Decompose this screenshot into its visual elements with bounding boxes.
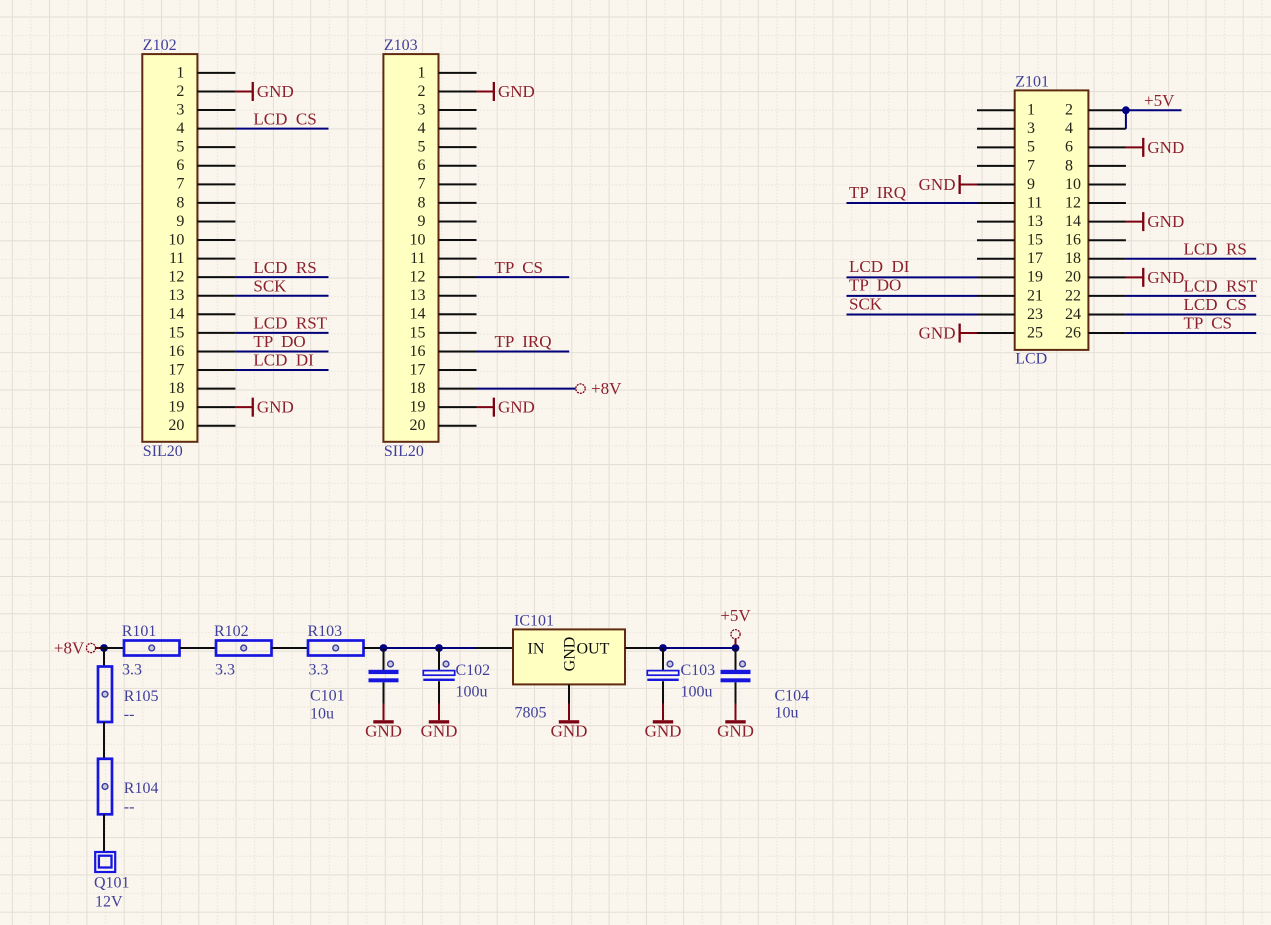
Z103 pin 10 (410, 231, 477, 248)
Z101 pin 16 (1065, 232, 1126, 249)
wire IC101 OUT stub (625, 647, 663, 649)
svg-text:11: 11 (1027, 194, 1042, 211)
svg-text:LCD RST: LCD RST (253, 314, 327, 333)
Z103 pin 17 (410, 361, 477, 378)
svg-text:GND: GND (645, 722, 682, 741)
svg-text:SIL20: SIL20 (384, 443, 424, 460)
wire C103 to ground (662, 681, 664, 704)
Z102 pin 16 (168, 343, 235, 360)
Z101 pin 5 (977, 139, 1035, 156)
Z102 pin 2 (176, 83, 235, 100)
wire C104 to ground (735, 682, 737, 704)
wire IC101 GND pin (568, 685, 570, 705)
svg-text:7: 7 (176, 176, 184, 193)
Z102 pin 17 (168, 361, 235, 378)
wire C101 tap (383, 648, 385, 671)
wire net +5V (1126, 109, 1182, 111)
svg-text:4: 4 (1065, 120, 1073, 137)
svg-text:13: 13 (410, 287, 426, 304)
svg-text:R105: R105 (124, 688, 159, 705)
resistor R104 (98, 759, 112, 815)
svg-text:6: 6 (176, 157, 184, 174)
svg-text:14: 14 (168, 306, 184, 323)
connector Z101 (LCD) body (1015, 90, 1089, 350)
Z102 pin 12 (168, 269, 235, 286)
Z103 pin 14 (410, 306, 477, 323)
svg-text:25: 25 (1027, 324, 1043, 341)
Z101 pin 22 (1065, 287, 1126, 304)
svg-text:+5V: +5V (720, 606, 751, 625)
wire net LCD_RST (235, 332, 328, 334)
Z102 pin 5 (176, 139, 235, 156)
svg-text:22: 22 (1065, 287, 1081, 304)
svg-text:7: 7 (1027, 157, 1035, 174)
Z102 pin 18 (168, 380, 235, 397)
junction node at C101 (380, 644, 388, 652)
svg-text:Q101: Q101 (94, 875, 130, 892)
Z101 pin 2 (1065, 102, 1126, 119)
wire junction to R105 (103, 648, 105, 667)
Z103 pin 18 (410, 380, 477, 397)
svg-text:7: 7 (418, 176, 426, 193)
svg-text:+5V: +5V (1144, 91, 1175, 110)
ground at Z101 pin 14 (1126, 212, 1184, 231)
Z103 pin 1 (418, 64, 477, 81)
svg-text:SCK: SCK (849, 294, 883, 313)
svg-text:SCK: SCK (253, 276, 287, 295)
ground at Z101 pin 20 (1126, 268, 1184, 287)
ground at Z101 pin 25 (919, 324, 977, 343)
svg-text:10: 10 (168, 231, 184, 248)
svg-text:LCD CS: LCD CS (1184, 295, 1247, 314)
svg-text:LCD DI: LCD DI (253, 351, 314, 370)
Z103 pin 2 (418, 83, 477, 100)
wire net LCD_RS (235, 276, 328, 278)
svg-text:1: 1 (418, 64, 426, 81)
ground at Z101 pin 9 (919, 175, 977, 194)
svg-text:TP IRQ: TP IRQ (495, 332, 552, 351)
svg-text:C103: C103 (681, 662, 716, 679)
Z102 pin 14 (168, 306, 235, 323)
svg-text:9: 9 (176, 213, 184, 230)
Z103 pin 4 (418, 120, 477, 137)
junction node at C104/+5V (732, 644, 740, 652)
wire net LCD_DI (Z101 left) (847, 276, 978, 278)
Z102 pin 13 (168, 287, 235, 304)
junction node +8V/R101/R105 (100, 644, 108, 652)
svg-text:26: 26 (1065, 324, 1081, 341)
Z101 pin 23 (977, 306, 1043, 323)
svg-text:17: 17 (1027, 250, 1043, 267)
wire C102 tap (438, 648, 440, 671)
svg-text:3.3: 3.3 (309, 662, 329, 679)
svg-text:17: 17 (168, 361, 184, 378)
power port +8V (54, 638, 100, 657)
svg-text:Z102: Z102 (143, 37, 177, 54)
wire net TP_IRQ (Z101 left) (847, 202, 978, 204)
Z103 pin 9 (418, 213, 477, 230)
Z101 pin 18 (1065, 250, 1126, 267)
svg-text:Z101: Z101 (1015, 74, 1049, 91)
Z103 pin 8 (418, 194, 477, 211)
wire R105 to R104 (103, 722, 105, 759)
wire net (R103 to IC101 IN) (380, 647, 476, 649)
Z103 pin 3 (418, 101, 477, 118)
ground under C103 (645, 704, 682, 741)
capacitor C104 (721, 661, 751, 682)
svg-text:GND: GND (257, 82, 294, 101)
wire C103 tap (662, 648, 664, 671)
svg-text:OUT: OUT (577, 641, 610, 658)
svg-text:TP DO: TP DO (253, 332, 305, 351)
svg-text:6: 6 (1065, 139, 1073, 156)
svg-text:GND: GND (1147, 138, 1184, 157)
svg-text:IN: IN (528, 641, 545, 658)
wire net SCK (Z101 left) (847, 313, 978, 315)
power port +8V (576, 379, 622, 398)
wire net TP_IRQ (477, 350, 570, 352)
Z103 pin 16 (410, 343, 477, 360)
svg-text:2: 2 (176, 83, 184, 100)
svg-text:1: 1 (176, 64, 184, 81)
connector Z102 body (142, 54, 197, 442)
svg-text:3: 3 (418, 101, 426, 118)
svg-text:18: 18 (1065, 250, 1081, 267)
ground at Z102 pin 19 (235, 398, 293, 417)
Z103 pin 19 (410, 399, 477, 416)
svg-text:C101: C101 (310, 688, 345, 705)
Z101 pin 19 (977, 269, 1043, 286)
wire R101 to R102 (180, 647, 217, 649)
wire C102 to ground (438, 681, 440, 704)
ground at Z101 pin 6 (1126, 138, 1184, 157)
svg-text:11: 11 (169, 250, 184, 267)
component Q101 (12V) (95, 852, 115, 872)
wire +8V to R101 (99, 647, 124, 649)
svg-text:21: 21 (1027, 287, 1043, 304)
ground at Z103 pin 2 (477, 82, 535, 101)
ground at Z103 pin 19 (477, 398, 535, 417)
Z101 pin 13 (977, 213, 1043, 230)
Z101 pin 10 (1065, 176, 1126, 193)
svg-text:16: 16 (168, 343, 184, 360)
wire net LCD_CS (Z101 right) (1126, 313, 1256, 315)
svg-text:LCD DI: LCD DI (849, 257, 910, 276)
junction node at C103 (659, 644, 667, 652)
svg-text:12V: 12V (95, 894, 123, 911)
Z101 pin 20 (1065, 269, 1126, 286)
Z103 pin 20 (410, 417, 477, 434)
Z101 pin 21 (977, 287, 1043, 304)
svg-text:9: 9 (1027, 176, 1035, 193)
svg-text:14: 14 (1065, 213, 1081, 230)
Z102 pin 3 (176, 101, 235, 118)
svg-text:GND: GND (498, 398, 535, 417)
wire net TP_CS (Z101 right) (1126, 332, 1256, 334)
ground under C104 (717, 704, 754, 741)
svg-text:R103: R103 (308, 623, 343, 640)
svg-text:TP CS: TP CS (1184, 314, 1233, 333)
Z103 pin 12 (410, 269, 477, 286)
Z101 pin 15 (977, 232, 1043, 249)
svg-text:TP CS: TP CS (495, 258, 544, 277)
Z103 pin 7 (418, 176, 477, 193)
wire R104 to Q101 (103, 814, 105, 852)
svg-text:12: 12 (410, 269, 426, 286)
svg-text:--: -- (124, 799, 135, 816)
ground under IC101 (551, 704, 588, 741)
svg-text:R101: R101 (122, 623, 157, 640)
svg-text:10: 10 (1065, 176, 1081, 193)
svg-text:19: 19 (168, 399, 184, 416)
Z103 pin 11 (410, 250, 476, 267)
ground under C101 (365, 704, 402, 741)
svg-text:17: 17 (410, 361, 426, 378)
svg-text:+8V: +8V (54, 638, 85, 657)
svg-text:TP DO: TP DO (849, 276, 901, 295)
svg-text:GND: GND (717, 722, 754, 741)
svg-text:R104: R104 (124, 780, 159, 797)
Z103 pin 5 (418, 139, 477, 156)
Z102 pin 8 (176, 194, 235, 211)
svg-text:10u: 10u (775, 705, 799, 722)
svg-text:20: 20 (168, 417, 184, 434)
svg-text:100u: 100u (456, 684, 488, 701)
svg-text:11: 11 (410, 250, 425, 267)
svg-text:GND: GND (421, 722, 458, 741)
svg-text:24: 24 (1065, 306, 1081, 323)
svg-text:13: 13 (168, 287, 184, 304)
Z102 pin 6 (176, 157, 235, 174)
svg-text:+8V: +8V (591, 379, 622, 398)
svg-text:14: 14 (410, 306, 426, 323)
junction +5V node (1122, 106, 1130, 114)
wire net LCD_RST (Z101 right) (1126, 295, 1256, 297)
svg-text:C104: C104 (775, 688, 810, 705)
svg-text:1: 1 (1027, 102, 1035, 119)
svg-text:5: 5 (418, 139, 426, 156)
wire net +8V (477, 388, 576, 390)
resistor R105 (98, 667, 112, 723)
connector Z103 body (383, 54, 438, 442)
svg-text:LCD RST: LCD RST (1184, 277, 1258, 296)
Z101 pin 9 (977, 176, 1035, 193)
svg-text:5: 5 (1027, 139, 1035, 156)
Z101 pin 12 (1065, 194, 1126, 211)
svg-text:9: 9 (418, 213, 426, 230)
svg-text:8: 8 (418, 194, 426, 211)
wire net +5V (OUT side) (663, 647, 736, 649)
Z101 pin 25 (977, 324, 1043, 341)
svg-text:LCD RS: LCD RS (253, 258, 316, 277)
svg-text:16: 16 (410, 343, 426, 360)
svg-text:3.3: 3.3 (122, 662, 142, 679)
Z102 pin 11 (169, 250, 235, 267)
wire net SCK (235, 295, 328, 297)
svg-text:LCD: LCD (1015, 350, 1047, 367)
svg-text:13: 13 (1027, 213, 1043, 230)
Z102 pin 9 (176, 213, 235, 230)
svg-text:5: 5 (176, 139, 184, 156)
Z102 pin 19 (168, 399, 235, 416)
Z101 pin 26 (1065, 324, 1126, 341)
Z101 pin 11 (977, 194, 1042, 211)
svg-text:GND: GND (1147, 212, 1184, 231)
svg-text:C102: C102 (456, 662, 491, 679)
svg-text:18: 18 (168, 380, 184, 397)
svg-text:15: 15 (168, 324, 184, 341)
svg-text:20: 20 (1065, 269, 1081, 286)
svg-text:GND: GND (919, 324, 956, 343)
svg-text:Z103: Z103 (384, 37, 418, 54)
wire net TP_DO (235, 350, 328, 352)
Z101 pin 17 (977, 250, 1043, 267)
svg-text:2: 2 (418, 83, 426, 100)
svg-text:18: 18 (410, 380, 426, 397)
svg-text:4: 4 (418, 120, 426, 137)
resistor R103 (308, 641, 364, 656)
capacitor C102 (423, 661, 454, 681)
Z101 pin 4 (1065, 120, 1126, 137)
wire net LCD_CS (235, 128, 328, 130)
Z102 pin 1 (176, 64, 235, 81)
Z102 pin 7 (176, 176, 235, 193)
svg-text:3: 3 (176, 101, 184, 118)
Z101 pin 6 (1065, 139, 1126, 156)
svg-text:6: 6 (418, 157, 426, 174)
svg-text:GND: GND (498, 82, 535, 101)
wire C101 to ground (383, 682, 385, 704)
Z103 pin 15 (410, 324, 477, 341)
svg-text:10: 10 (410, 231, 426, 248)
Z102 pin 20 (168, 417, 235, 434)
svg-text:10u: 10u (310, 706, 334, 723)
svg-text:GND: GND (257, 398, 294, 417)
Z103 pin 6 (418, 157, 477, 174)
svg-text:GND: GND (551, 722, 588, 741)
svg-text:8: 8 (176, 194, 184, 211)
svg-text:20: 20 (410, 417, 426, 434)
svg-text:2: 2 (1065, 102, 1073, 119)
svg-text:R102: R102 (214, 623, 249, 640)
svg-text:GND: GND (1147, 268, 1184, 287)
svg-text:19: 19 (410, 399, 426, 416)
Z101 pin 3 (977, 120, 1035, 137)
Z102 pin 4 (176, 120, 235, 137)
svg-text:4: 4 (176, 120, 184, 137)
capacitor C103 (647, 661, 678, 681)
Z101 pin 1 (977, 102, 1035, 119)
svg-text:LCD CS: LCD CS (253, 109, 316, 128)
svg-text:15: 15 (1027, 232, 1043, 249)
svg-text:16: 16 (1065, 232, 1081, 249)
svg-text:15: 15 (410, 324, 426, 341)
wire IC101 IN stub (476, 647, 514, 649)
resistor R102 (216, 641, 272, 656)
svg-text:GND: GND (365, 722, 402, 741)
svg-text:GND: GND (919, 175, 956, 194)
svg-text:SIL20: SIL20 (143, 443, 183, 460)
svg-text:IC101: IC101 (514, 613, 554, 630)
power port +5V (720, 606, 751, 645)
svg-text:8: 8 (1065, 157, 1073, 174)
Z101 pin 24 (1065, 306, 1126, 323)
svg-text:3: 3 (1027, 120, 1035, 137)
Z101 pin 8 (1065, 157, 1126, 174)
Z102 pin 15 (168, 324, 235, 341)
ground at Z102 pin 2 (235, 82, 293, 101)
wire net LCD_DI (235, 369, 328, 371)
svg-text:7805: 7805 (515, 705, 547, 722)
svg-text:23: 23 (1027, 306, 1043, 323)
wire R102 to R103 (272, 647, 309, 649)
wire R103 stub (364, 647, 380, 649)
ground under C102 (421, 704, 458, 741)
capacitor C101 (369, 661, 399, 682)
svg-text:3.3: 3.3 (215, 662, 235, 679)
junction node at C102 (435, 644, 443, 652)
svg-text:12: 12 (1065, 194, 1081, 211)
svg-text:12: 12 (168, 269, 184, 286)
svg-text:100u: 100u (681, 684, 713, 701)
wire net LCD_RS (Z101 right) (1126, 258, 1256, 260)
svg-text:--: -- (124, 706, 135, 723)
regulator IC101 body (513, 629, 625, 684)
wire C104 tap (735, 648, 737, 671)
Z102 pin 10 (168, 231, 235, 248)
wire net TP_DO (Z101 left) (847, 295, 978, 297)
Z101 pin 14 (1065, 213, 1126, 230)
svg-text:LCD RS: LCD RS (1184, 239, 1247, 258)
wire net TP_CS (477, 276, 570, 278)
svg-text:19: 19 (1027, 269, 1043, 286)
resistor R101 (124, 641, 180, 656)
svg-text:TP IRQ: TP IRQ (849, 183, 906, 202)
wire +5V vertical to pin 4 (1125, 110, 1127, 129)
Z103 pin 13 (410, 287, 477, 304)
Z101 pin 7 (977, 157, 1035, 174)
